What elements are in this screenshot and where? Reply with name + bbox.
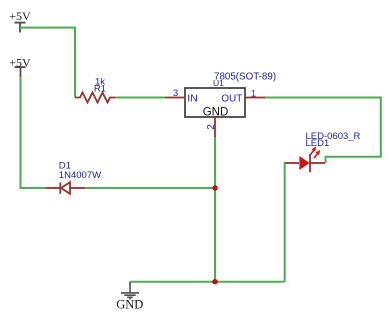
LED triangle [299,156,309,170]
pin 3 lead (IN) [165,97,184,99]
diode D1 [46,182,85,194]
resistor R1 [75,93,115,103]
svg-text:1: 1 [251,88,256,99]
wire bottom rail [130,281,285,283]
pin 2 lead (GND) [214,117,216,137]
svg-text:+5V: +5V [9,9,31,23]
wire resistor to U1 pin3 [115,97,165,99]
svg-text:U1: U1 [213,78,224,88]
wire from +5V flag2 down to diode D1 [21,77,47,188]
junction (middle) [212,185,217,190]
svg-text:3: 3 [173,88,178,99]
svg-text:GND: GND [116,298,143,312]
LED emission arrow 1 [310,146,316,154]
svg-text:R1: R1 [94,83,106,94]
svg-text:+5V: +5V [9,55,31,69]
svg-text:LED1: LED1 [306,138,330,149]
wire LED anode down to bottom rail [284,163,286,282]
LED emission arrow 2 [314,150,320,158]
svg-text:1N4007W: 1N4007W [59,170,101,181]
junction (bottom) [212,279,217,284]
power +5V flag 2 [15,67,26,77]
svg-text:OUT: OUT [221,93,242,104]
ground symbol [121,282,139,299]
LED LED1 [285,154,325,172]
wire U1 pin1 to LED (right route) [265,98,381,164]
wire diode to center junction [85,187,215,189]
op-amp U1 body (7805 regulator box) [185,88,245,117]
pin 1 lead (OUT) [246,97,265,99]
wire U1 pin2 down through junction to bottom rail [214,137,216,282]
svg-text:GND: GND [203,107,229,119]
wire from +5V flag1 to resistor (top) [20,28,75,98]
svg-text:IN: IN [187,92,198,104]
power +5V flag 1 [15,23,26,33]
svg-text:2: 2 [206,124,217,130]
